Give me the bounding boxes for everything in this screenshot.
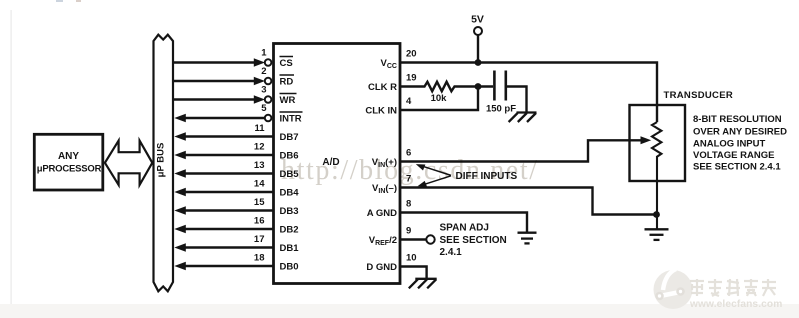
svg-text:9: 9 [406, 226, 411, 237]
svg-text:TRANSDUCER: TRANSDUCER [664, 90, 734, 101]
svg-text:DB4: DB4 [280, 188, 300, 199]
svg-text:16: 16 [254, 216, 265, 227]
svg-text:DB3: DB3 [280, 206, 299, 217]
svg-text:2: 2 [261, 66, 266, 77]
svg-text:DB7: DB7 [280, 132, 299, 143]
svg-text:μP BUS: μP BUS [156, 143, 167, 178]
svg-text:5V: 5V [471, 14, 484, 26]
svg-text:1: 1 [261, 48, 267, 59]
svg-text:D GND: D GND [366, 262, 397, 273]
svg-text:VOLTAGE RANGE: VOLTAGE RANGE [693, 150, 774, 161]
svg-text:http://blog.csdn.net/: http://blog.csdn.net/ [281, 155, 539, 186]
svg-text:10k: 10k [431, 93, 448, 104]
svg-text:17: 17 [254, 234, 265, 245]
svg-text:CLK IN: CLK IN [365, 106, 397, 117]
svg-text:3: 3 [261, 85, 266, 96]
svg-text:A GND: A GND [367, 208, 397, 219]
svg-text:8-BIT RESOLUTION: 8-BIT RESOLUTION [693, 114, 782, 125]
svg-text:RD: RD [280, 77, 294, 88]
svg-text:2.4.1: 2.4.1 [440, 247, 463, 258]
svg-text:OVER ANY DESIRED: OVER ANY DESIRED [693, 127, 787, 138]
svg-text:μPROCESSOR: μPROCESSOR [37, 164, 102, 175]
svg-text:DB2: DB2 [280, 225, 299, 236]
svg-text:ANY: ANY [58, 151, 79, 162]
svg-text:CS: CS [280, 58, 293, 69]
svg-text:4: 4 [406, 96, 412, 107]
svg-text:19: 19 [406, 73, 417, 84]
svg-text:11: 11 [254, 123, 265, 134]
svg-text:5: 5 [261, 103, 267, 114]
svg-text:8: 8 [406, 199, 411, 210]
svg-text:SEE SECTION: SEE SECTION [440, 235, 507, 246]
svg-text:20: 20 [406, 49, 417, 60]
svg-text:www.elecfans.com: www.elecfans.com [689, 299, 782, 310]
svg-text:12: 12 [254, 142, 265, 153]
svg-text:DB1: DB1 [280, 243, 300, 254]
svg-text:18: 18 [254, 253, 265, 264]
svg-text:10: 10 [406, 253, 417, 264]
svg-text:13: 13 [254, 160, 265, 171]
svg-text:150 pF: 150 pF [486, 104, 516, 115]
svg-text:14: 14 [254, 179, 265, 190]
svg-text:INTR: INTR [280, 114, 302, 125]
svg-text:SEE SECTION 2.4.1: SEE SECTION 2.4.1 [693, 161, 781, 172]
svg-text:WR: WR [280, 95, 296, 106]
svg-text:CLK R: CLK R [368, 82, 397, 93]
svg-text:ANALOG INPUT: ANALOG INPUT [693, 138, 766, 149]
svg-text:15: 15 [254, 197, 265, 208]
svg-text:SPAN ADJ: SPAN ADJ [440, 222, 489, 233]
svg-text:DB0: DB0 [280, 262, 299, 273]
